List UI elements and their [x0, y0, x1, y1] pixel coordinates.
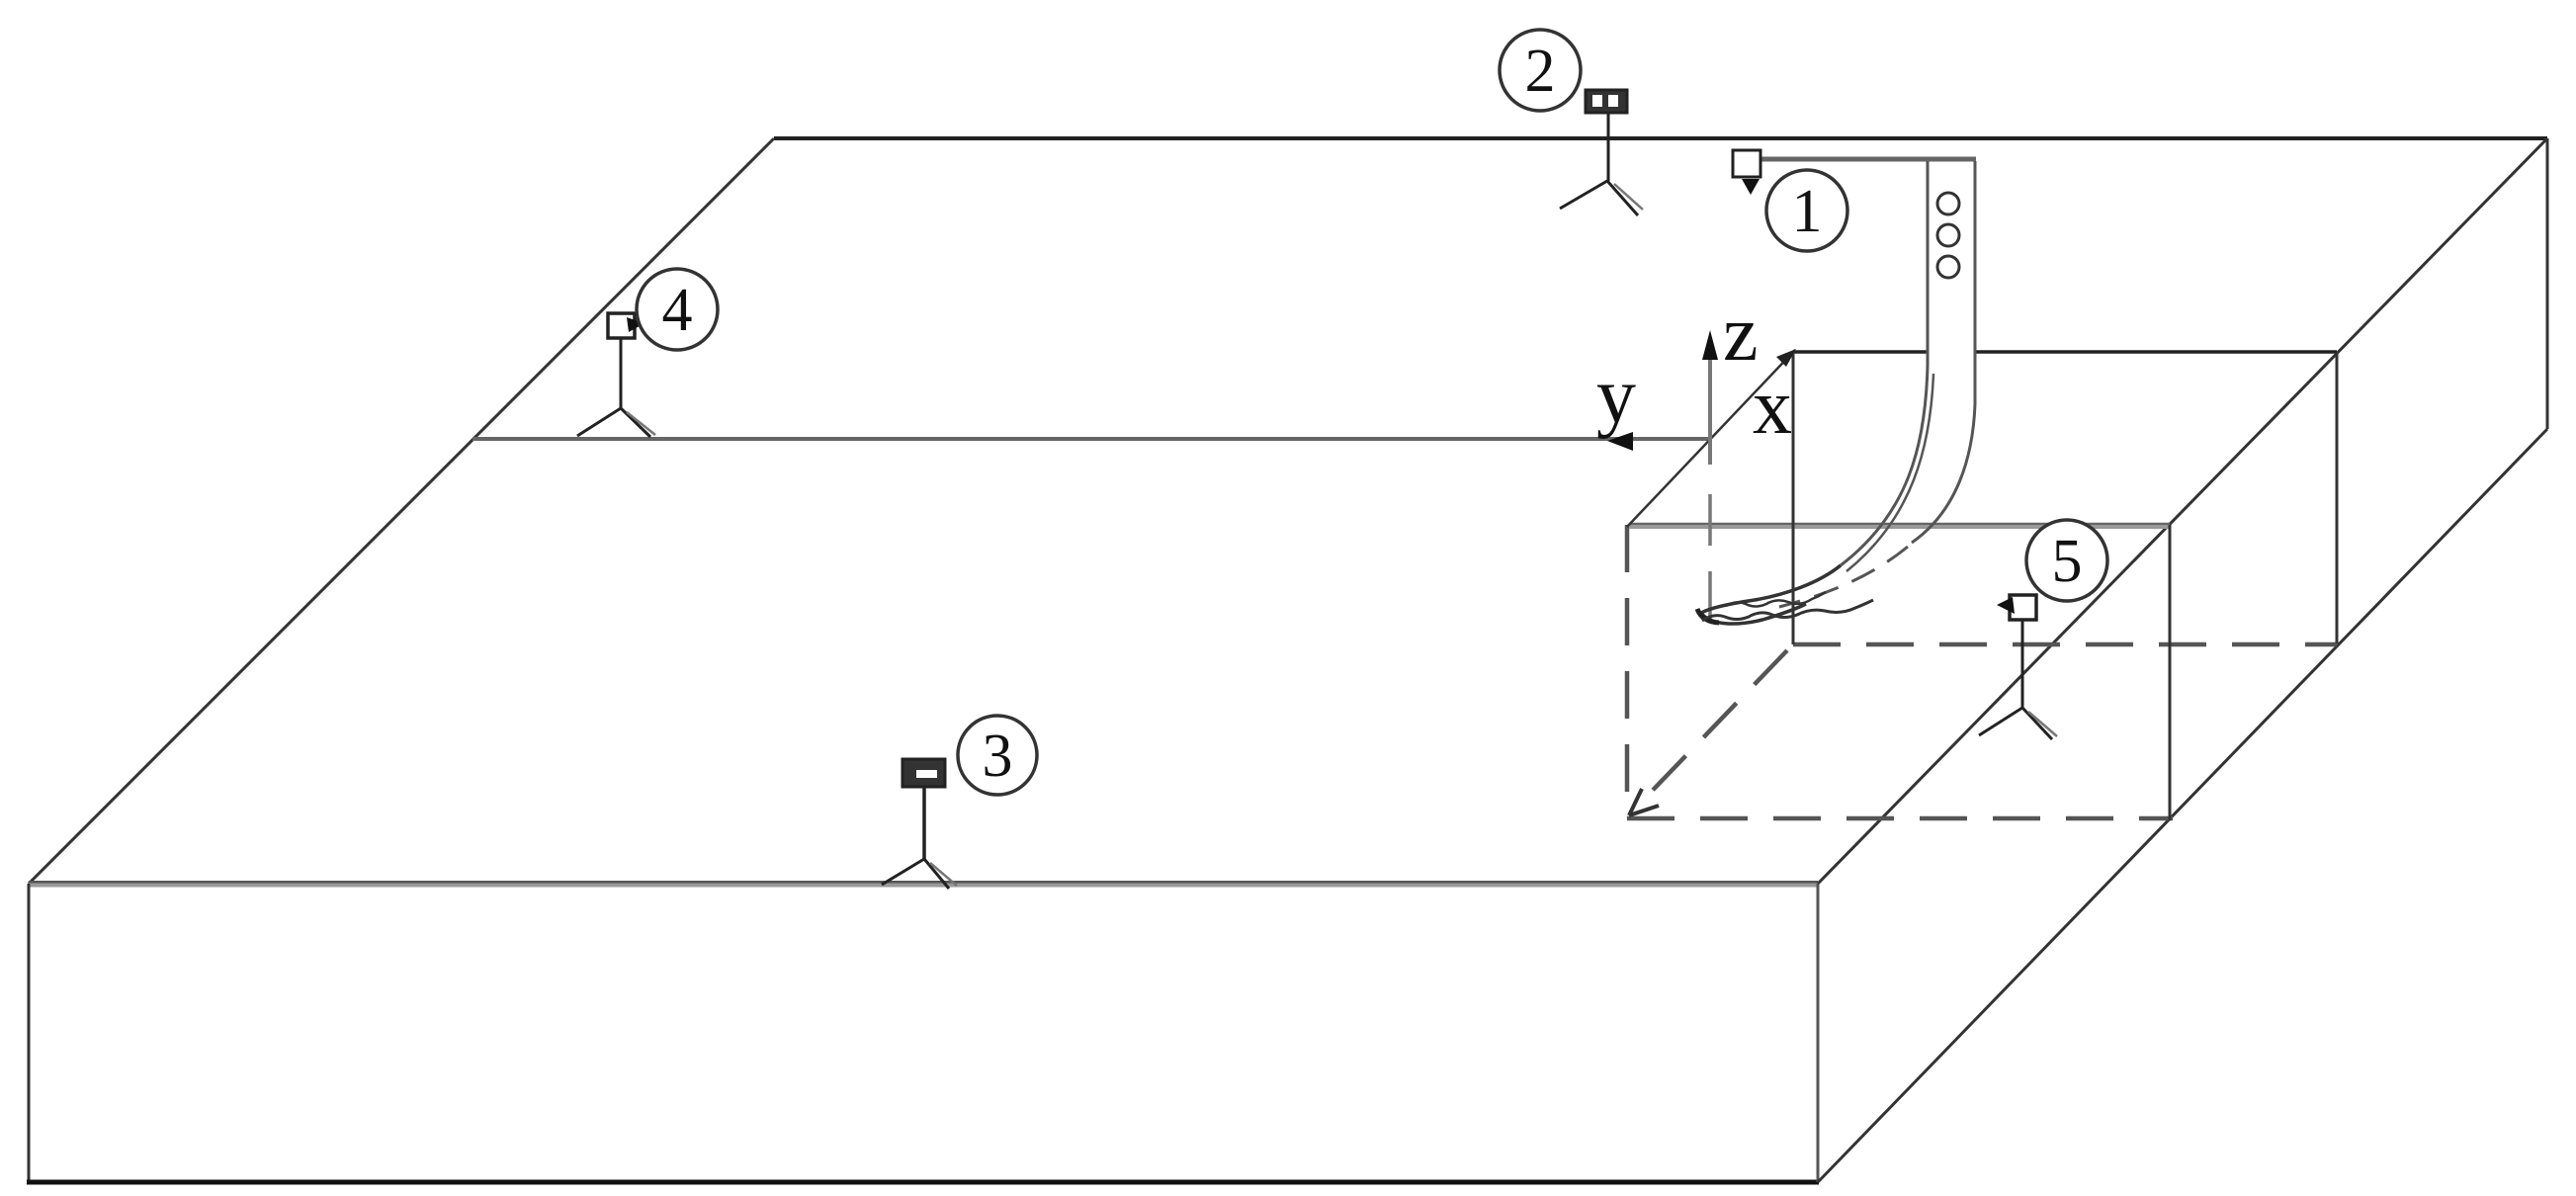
- svg-text:1: 1: [1792, 178, 1823, 245]
- svg-text:4: 4: [662, 277, 693, 344]
- svg-text:x: x: [1753, 364, 1792, 451]
- svg-text:y: y: [1596, 353, 1636, 440]
- svg-text:3: 3: [983, 723, 1013, 790]
- svg-text:2: 2: [1525, 38, 1556, 105]
- svg-text:5: 5: [2052, 528, 2083, 595]
